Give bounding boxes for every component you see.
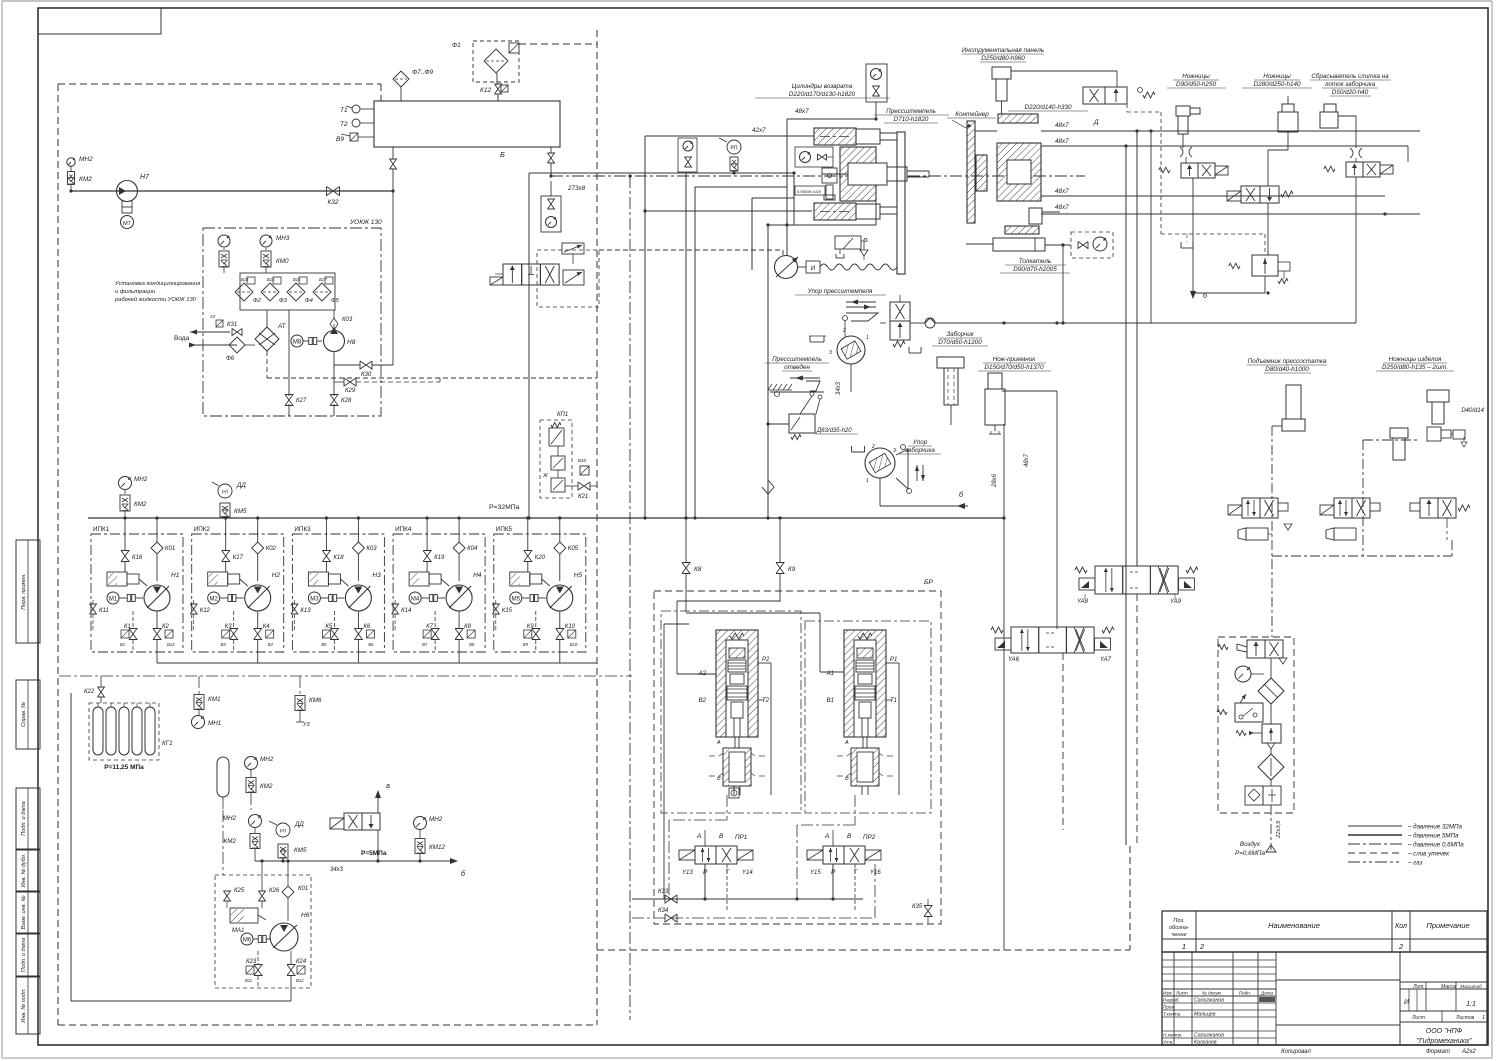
svg-text:Y16: Y16 <box>870 870 881 876</box>
relief valve P5 <box>330 783 390 861</box>
rotary distributor 2 <box>852 444 926 494</box>
label upor pressshtempelya <box>795 288 886 295</box>
svg-text:МА1: МА1 <box>232 928 244 934</box>
svg-text:А: А <box>716 740 721 746</box>
svg-text:МН2: МН2 <box>79 156 93 163</box>
bus P32 <box>88 504 1004 518</box>
svg-text:D220/d140-h330: D220/d140-h330 <box>1025 104 1072 111</box>
svg-text:В10: В10 <box>578 458 587 463</box>
svg-text:42х7: 42х7 <box>752 127 766 134</box>
gauge box press top <box>866 64 887 121</box>
svg-text:D250/d80-h135 – 2шт.: D250/d80-h135 – 2шт. <box>1382 364 1448 371</box>
filter manifold frame <box>240 267 335 310</box>
svg-text:В3: В3 <box>221 642 227 647</box>
svg-text:М6: М6 <box>243 938 252 944</box>
svg-text:К6: К6 <box>363 624 371 630</box>
svg-text:– давление 32МПа: – давление 32МПа <box>1407 824 1463 831</box>
svg-text:48х7: 48х7 <box>1055 122 1069 129</box>
valve K29 <box>334 378 440 394</box>
svg-text:1: 1 <box>866 335 869 341</box>
svg-text:Салигжанов: Салигжанов <box>1194 998 1224 1004</box>
svg-text:К16: К16 <box>132 555 143 561</box>
svg-text:КМ2: КМ2 <box>134 501 147 508</box>
label cylinders vozvrata <box>755 82 890 98</box>
svg-text:1: 1 <box>866 478 869 484</box>
svg-text:B2: B2 <box>699 698 707 704</box>
svg-text:К2: К2 <box>162 624 170 630</box>
gauge MH2 left <box>67 156 93 166</box>
svg-text:Взам. инв. №: Взам. инв. № <box>21 895 27 929</box>
svg-text:Контейнер: Контейнер <box>955 110 989 118</box>
svg-text:В7: В7 <box>422 642 428 647</box>
svg-text:Ф7..Ф9: Ф7..Ф9 <box>412 69 434 76</box>
svg-text:Ф1: Ф1 <box>452 42 461 49</box>
title block <box>1162 952 1487 1046</box>
valve K31 <box>210 314 242 336</box>
pump H6 block <box>215 859 311 988</box>
return cyl top <box>814 128 897 145</box>
filter F2 <box>235 277 262 304</box>
svg-text:К03: К03 <box>366 546 377 552</box>
valve K33 <box>632 889 677 903</box>
pneumo valve B <box>1320 498 1380 540</box>
izdeliya fitting <box>1427 408 1485 447</box>
svg-text:2: 2 <box>871 444 875 450</box>
svg-text:У3: У3 <box>302 722 311 728</box>
press piston rod <box>887 167 929 181</box>
main suction line <box>69 189 393 192</box>
tank outlet valve left <box>390 147 397 365</box>
svg-text:Салигжанов: Салигжанов <box>1194 1033 1224 1039</box>
svg-text:Р=5МПа: Р=5МПа <box>361 850 387 857</box>
svg-text:лоток заборчика: лоток заборчика <box>1324 80 1376 88</box>
svg-text:2: 2 <box>1199 942 1205 951</box>
svg-text:В6: В6 <box>368 642 374 647</box>
svg-text:2: 2 <box>1398 942 1404 951</box>
valve K34 <box>632 908 677 922</box>
svg-text:К4: К4 <box>263 624 271 630</box>
label nozh priemnik <box>978 356 1051 371</box>
svg-text:Ножницы изделия: Ножницы изделия <box>1389 355 1442 363</box>
svg-text:Д: Д <box>1093 119 1099 126</box>
svg-text:Д63/d35-h20: Д63/d35-h20 <box>816 428 852 434</box>
svg-text:К01: К01 <box>165 546 175 552</box>
svg-text:YA9: YA9 <box>1170 599 1182 605</box>
long lines right <box>1063 129 1139 845</box>
press feed lines <box>693 119 876 520</box>
pump unit ИПК5 <box>492 516 586 663</box>
svg-text:D80/d40-h1000: D80/d40-h1000 <box>1265 366 1309 373</box>
svg-text:Инв. № дубл.: Инв. № дубл. <box>21 854 27 888</box>
svg-text:D70/d50-h1200: D70/d50-h1200 <box>938 339 982 346</box>
tolkatel cyl <box>966 238 1070 273</box>
tool cyl top <box>998 114 1038 123</box>
valve KM12 <box>415 839 445 862</box>
b arrow right <box>1190 291 1208 300</box>
svg-text:Н.контр.: Н.контр. <box>1163 1033 1182 1038</box>
motor M8 <box>291 335 322 347</box>
filter F6 <box>226 337 245 362</box>
rotary path <box>815 392 851 444</box>
svg-text:К05: К05 <box>568 546 579 552</box>
valve K27 <box>285 395 307 406</box>
label 42x7 <box>752 127 766 134</box>
svg-text:В17: В17 <box>319 277 327 282</box>
air inlet <box>1235 805 1282 857</box>
svg-text:чение: чение <box>1171 932 1186 938</box>
check on x768 <box>762 480 774 494</box>
svg-text:Примечание: Примечание <box>1426 921 1469 930</box>
corner stamp <box>38 8 161 34</box>
svg-text:Наименование: Наименование <box>1268 921 1320 930</box>
svg-text:М7: М7 <box>123 221 131 227</box>
svg-text:а: а <box>386 783 390 790</box>
svg-text:В1: В1 <box>120 642 125 647</box>
svg-text:D50/d20-h40: D50/d20-h40 <box>1332 89 1369 96</box>
svg-text:В11: В11 <box>245 978 252 983</box>
svg-text:В4: В4 <box>268 642 274 647</box>
bottom captions <box>1281 1049 1476 1055</box>
feeder 48x7 lines <box>1041 129 1420 323</box>
svg-text:ИПК2: ИПК2 <box>194 526 211 533</box>
svg-text:МН2: МН2 <box>134 476 148 483</box>
svg-text:В: В <box>845 776 849 782</box>
svg-text:В: В <box>847 833 852 840</box>
svg-text:Толкатель: Толкатель <box>1019 258 1051 265</box>
svg-text:К01: К01 <box>298 886 308 892</box>
svg-text:48х7: 48х7 <box>1024 453 1030 467</box>
svg-text:Пров.: Пров. <box>1163 1005 1175 1010</box>
svg-text:Справ. №: Справ. № <box>21 702 27 727</box>
svg-text:М3: М3 <box>310 597 319 603</box>
UOKZh caption <box>114 281 200 303</box>
svg-text:В9: В9 <box>336 136 344 143</box>
svg-text:273х8: 273х8 <box>567 185 586 192</box>
svg-text:1: 1 <box>1482 1015 1485 1021</box>
valve K32 <box>327 187 340 207</box>
svg-text:К11: К11 <box>99 608 109 614</box>
svg-text:ИПК1: ИПК1 <box>93 526 110 533</box>
hydromotor main <box>775 256 799 279</box>
svg-text:РП: РП <box>731 146 738 152</box>
svg-text:"Гидромеханика": "Гидромеханика" <box>1417 1037 1472 1045</box>
svg-text:Р=0,6МПа: Р=0,6МПа <box>1235 850 1265 857</box>
svg-text:В9: В9 <box>523 642 529 647</box>
valve K35 <box>912 899 932 924</box>
sbras cyl <box>1320 104 1356 148</box>
svg-text:Т.контр.: Т.контр. <box>1163 1012 1182 1017</box>
svg-text:Лист: Лист <box>1175 991 1188 996</box>
gauge box top mid <box>678 138 697 173</box>
svg-text:К12: К12 <box>200 608 211 614</box>
svg-text:ИПК5: ИПК5 <box>496 526 513 533</box>
svg-text:Подп. и дата: Подп. и дата <box>21 801 27 835</box>
sbras valve <box>1324 162 1393 323</box>
UOKZh dash-dot box <box>203 219 382 416</box>
svg-text:D40/d14: D40/d14 <box>1461 408 1484 414</box>
mid long lines <box>527 136 814 520</box>
pump H8 <box>324 327 356 352</box>
pump H8 top line <box>334 310 335 318</box>
svg-text:Прессштемпель: Прессштемпель <box>886 108 936 115</box>
air regulator <box>1236 704 1281 749</box>
label pressshtempel <box>874 108 949 123</box>
left margin boxes <box>16 540 40 1034</box>
sensor DD bus <box>212 482 247 518</box>
valve KM2 acc <box>223 778 273 876</box>
svg-text:D90/d50-h250: D90/d50-h250 <box>1176 81 1216 88</box>
valve KM2 bus <box>120 495 147 518</box>
gauge MH2 right <box>414 816 443 838</box>
shears2 valve <box>1227 132 1293 255</box>
svg-text:К9: К9 <box>527 624 535 630</box>
svg-text:1: 1 <box>1182 942 1186 951</box>
svg-text:МН2: МН2 <box>429 816 443 823</box>
svg-text:К24: К24 <box>296 959 307 965</box>
svg-text:D220/d170/d130-h1820: D220/d170/d130-h1820 <box>789 91 856 98</box>
pneumo dashdot net <box>1252 370 1452 637</box>
filter F5 <box>313 277 340 304</box>
svg-text:Y14: Y14 <box>742 870 753 876</box>
valve dashed box <box>537 250 599 307</box>
svg-text:М2: М2 <box>210 597 219 603</box>
svg-text:Изм.: Изм. <box>1163 991 1173 996</box>
svg-text:В12: В12 <box>296 978 304 983</box>
sbras throttle <box>1350 148 1362 162</box>
press drain valve <box>835 232 868 260</box>
label nozhnitsy izdeliya <box>1376 355 1454 371</box>
valve K9 <box>776 516 796 602</box>
svg-text:МН3: МН3 <box>276 235 290 242</box>
ya drains <box>1061 243 1064 324</box>
pump unit ИПК4 <box>392 516 486 663</box>
svg-text:К14: К14 <box>401 608 412 614</box>
svg-text:В: В <box>717 776 721 782</box>
svg-text:Ж: Ж <box>542 473 548 479</box>
gauge-valve box mid <box>541 181 561 232</box>
izdeliya cyl top <box>1427 390 1449 432</box>
nozh cyl <box>985 373 1057 950</box>
valve KM5 <box>278 844 307 861</box>
svg-text:48х7: 48х7 <box>1055 204 1069 211</box>
svg-text:Подп.: Подп. <box>1239 991 1251 996</box>
svg-text:Подп. и дата: Подп. и дата <box>21 938 27 972</box>
valve KM0 <box>261 251 289 267</box>
svg-text:отведен: отведен <box>784 363 810 371</box>
svg-text:Вода: Вода <box>174 335 190 342</box>
svg-text:T1: T1 <box>890 698 897 704</box>
svg-text:БР: БР <box>924 579 933 586</box>
label upor zaborchika <box>899 439 941 454</box>
air valve 3-2 <box>1218 640 1287 666</box>
svg-text:Масса: Масса <box>1441 984 1456 990</box>
svg-text:Подъемник прессостатка: Подъемник прессостатка <box>1248 357 1327 365</box>
single accumulator <box>217 757 251 810</box>
svg-text:К20: К20 <box>535 555 546 561</box>
svg-text:К9: К9 <box>788 566 796 573</box>
press main block <box>822 147 887 201</box>
otveden arrow <box>790 376 820 381</box>
label 34x3 vert <box>836 381 842 395</box>
svg-text:Р: Р <box>703 869 708 876</box>
svg-text:Н6: Н6 <box>301 912 310 919</box>
svg-text:Р=32МПа: Р=32МПа <box>489 504 520 511</box>
svg-text:КМ2: КМ2 <box>79 176 92 183</box>
svg-text:1:1: 1:1 <box>1466 1001 1476 1008</box>
svg-text:ПР1: ПР1 <box>735 834 747 841</box>
svg-text:B1: B1 <box>827 698 834 704</box>
svg-text:– газ: – газ <box>1407 860 1422 867</box>
UOKZh internal pipes <box>224 267 597 416</box>
svg-text:Н2: Н2 <box>272 572 281 579</box>
svg-text:2: 2 <box>842 328 846 334</box>
vert valve zaborchik <box>880 288 921 353</box>
svg-text:Y13: Y13 <box>682 870 693 876</box>
label container <box>947 110 996 128</box>
svg-text:КМ12: КМ12 <box>429 844 445 851</box>
svg-text:ИПК3: ИПК3 <box>294 526 311 533</box>
svg-text:КП1: КП1 <box>557 412 568 418</box>
air filter <box>1258 658 1284 704</box>
svg-text:Ножницы: Ножницы <box>1182 73 1210 80</box>
gauge UOKZh 1 <box>218 235 230 250</box>
label podyemnik <box>1247 357 1327 373</box>
svg-text:Т2: Т2 <box>340 121 348 128</box>
gauge MH2 p5 <box>223 815 262 834</box>
svg-text:КМ1: КМ1 <box>208 696 220 703</box>
hose wavy <box>798 261 897 273</box>
svg-text:К8: К8 <box>464 624 472 630</box>
svg-text:В: В <box>719 833 724 840</box>
svg-text:заборчика: заборчика <box>904 446 935 454</box>
svg-text:Дата: Дата <box>1260 991 1274 996</box>
air lubricator <box>1258 749 1284 780</box>
shears2 cyl <box>1278 96 1310 140</box>
svg-text:и фильтрации: и фильтрации <box>115 289 156 295</box>
valve KM1 <box>194 676 220 710</box>
press gauge box <box>795 147 833 167</box>
svg-text:В14: В14 <box>241 277 249 282</box>
valve K22 <box>84 676 105 703</box>
lever mechanism <box>768 381 824 414</box>
sensor RP top <box>719 138 741 175</box>
svg-text:К17: К17 <box>233 555 244 561</box>
valve K8 <box>682 516 702 612</box>
svg-text:К23: К23 <box>246 959 257 965</box>
BR internal pipes <box>664 601 899 918</box>
svg-text:ООО "НПФ: ООО "НПФ <box>1426 1028 1463 1035</box>
svg-text:К19: К19 <box>434 555 445 561</box>
svg-text:Поз.: Поз. <box>1173 918 1184 924</box>
svg-text:рабочей жидкости УОКЖ 130: рабочей жидкости УОКЖ 130 <box>114 296 197 303</box>
svg-text:№ докум.: № докум. <box>1202 991 1222 996</box>
pump H6 <box>230 908 310 951</box>
gauge MH2 bus <box>119 476 148 494</box>
svg-text:Листов: Листов <box>1455 1015 1475 1021</box>
motor M7 <box>121 201 134 229</box>
svg-text:МН2: МН2 <box>260 756 274 763</box>
svg-text:М4: М4 <box>411 597 420 603</box>
rotary2 lines <box>843 424 880 506</box>
svg-text:Кол: Кол <box>1395 923 1407 930</box>
heat exch water link <box>243 332 255 345</box>
label sbrasyvatel <box>1310 72 1391 96</box>
svg-text:22х3,5: 22х3,5 <box>1276 820 1282 839</box>
svg-text:YA8: YA8 <box>1077 599 1089 605</box>
svg-text:РП: РП <box>222 490 229 496</box>
svg-text:ПР2: ПР2 <box>863 834 876 841</box>
svg-text:Б7б/Б9б-h118: Б7б/Б9б-h118 <box>797 190 822 194</box>
zaborchik cyl <box>937 357 964 425</box>
svg-text:К03: К03 <box>342 317 353 323</box>
svg-text:КМ5: КМ5 <box>294 847 307 854</box>
press small block <box>822 168 837 200</box>
instrument cyl <box>992 67 1117 114</box>
podyemnik cyl <box>1272 378 1305 431</box>
svg-text:А: А <box>844 740 849 746</box>
shears1 valve <box>1159 163 1228 293</box>
valve D top <box>1083 71 1265 255</box>
svg-text:YA7: YA7 <box>1100 657 1112 663</box>
heat exchanger AT <box>255 310 287 351</box>
svg-text:48х7: 48х7 <box>795 108 809 115</box>
valve K12 <box>480 84 508 101</box>
svg-text:К8: К8 <box>694 566 702 573</box>
tool rods <box>975 130 1062 132</box>
valve KM2 p5 <box>224 834 260 862</box>
press unit ПР2 <box>807 630 897 910</box>
filter F7-F9 <box>393 69 434 101</box>
svg-text:Н3: Н3 <box>372 572 381 579</box>
svg-text:М1: М1 <box>109 597 118 603</box>
pump unit ИПК1 <box>90 516 184 663</box>
svg-text:Инструментальная панель: Инструментальная панель <box>962 47 1044 54</box>
svg-text:К25: К25 <box>234 888 245 894</box>
svg-text:Н7: Н7 <box>140 174 150 181</box>
tank sensor B9 <box>336 133 374 143</box>
svg-text:Ф3: Ф3 <box>279 298 288 304</box>
valve KM box 1 <box>219 251 229 267</box>
svg-text:Заборчик: Заборчик <box>946 330 974 338</box>
svg-text:Масштаб: Масштаб <box>1460 984 1482 989</box>
tank sensor T1 <box>340 105 374 114</box>
svg-text:А2х2: А2х2 <box>1461 1049 1476 1055</box>
gas dash-dot main line <box>551 174 1085 1020</box>
right feeder join <box>1151 291 1356 323</box>
gauge MH2 acc <box>245 756 274 777</box>
tool cyl body <box>975 131 1041 201</box>
svg-text:P1: P1 <box>890 657 897 663</box>
b arrow mid <box>880 491 968 509</box>
svg-text:К22: К22 <box>84 689 95 695</box>
svg-text:У2: У2 <box>210 314 216 319</box>
air pressure switch <box>1217 694 1263 726</box>
bus P5 <box>255 858 466 878</box>
svg-text:КМ2: КМ2 <box>260 783 273 790</box>
svg-text:D280/d250-h140: D280/d250-h140 <box>1254 81 1301 88</box>
air gauge <box>1235 666 1264 682</box>
svg-text:К18: К18 <box>333 555 344 561</box>
drain dashed bus <box>519 30 597 1025</box>
svg-text:К5: К5 <box>325 624 333 630</box>
tank sensor T2 <box>340 119 374 128</box>
accumulator battery KG1 <box>89 703 173 771</box>
valve K28 <box>330 395 352 406</box>
svg-text:Б: Б <box>500 150 505 159</box>
legend <box>1348 824 1464 867</box>
filter F3 <box>261 277 288 304</box>
svg-text:КМ6: КМ6 <box>309 697 322 704</box>
